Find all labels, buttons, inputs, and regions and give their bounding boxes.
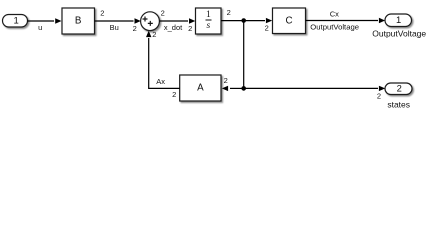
svg-text:s: s: [207, 21, 211, 31]
wire Bu: B to Sum: [95, 18, 141, 23]
wire: branch down to A and states: [243, 21, 245, 89]
svg-text:Bu: Bu: [110, 23, 119, 32]
svg-text:1: 1: [396, 14, 401, 25]
svg-text:2: 2: [227, 8, 231, 17]
inport In1: [3, 15, 28, 28]
svg-text:1: 1: [13, 16, 18, 27]
svg-text:2: 2: [188, 24, 192, 33]
svg-text:u: u: [38, 23, 42, 32]
svg-text:2: 2: [133, 24, 137, 33]
outport Out1: [385, 14, 412, 27]
svg-text:2: 2: [100, 8, 104, 17]
svg-text:B: B: [75, 16, 82, 27]
svg-text:A: A: [197, 83, 204, 94]
wire Ax: A to Sum bottom input: [146, 31, 180, 89]
junction dot (top branch): [241, 18, 246, 23]
outport states: [385, 83, 412, 95]
svg-text:2: 2: [161, 9, 165, 18]
gain block A: [180, 75, 221, 101]
svg-text:Ax: Ax: [156, 77, 165, 86]
svg-text:Cx: Cx: [330, 9, 339, 18]
svg-text:C: C: [285, 15, 292, 26]
wire: Integrator to C: [221, 18, 272, 23]
svg-text:OutputVoltage: OutputVoltage: [310, 23, 359, 32]
svg-text:x_dot: x_dot: [164, 23, 183, 32]
svg-text:1: 1: [206, 10, 211, 20]
wire: branch to A input: [222, 86, 244, 91]
gain block C: [273, 8, 306, 34]
svg-text:2: 2: [224, 76, 228, 85]
wire: branch to states outport: [244, 86, 386, 91]
svg-text:2: 2: [265, 24, 269, 33]
svg-text:2: 2: [172, 90, 176, 99]
svg-text:2: 2: [152, 30, 156, 39]
svg-text:states: states: [387, 100, 410, 110]
sum junction: [141, 12, 160, 31]
wire u: In1 to B: [28, 18, 62, 23]
svg-text:2: 2: [397, 83, 402, 94]
svg-text:2: 2: [377, 92, 381, 101]
wire x_dot: Sum to Integrator: [159, 18, 195, 23]
junction dot (bottom branch): [241, 86, 246, 91]
gain block B: [62, 8, 95, 34]
svg-text:OutputVoltage: OutputVoltage: [372, 29, 426, 39]
integrator block 1/s: [196, 8, 222, 34]
wire Cx: C to Out1: [306, 18, 386, 23]
